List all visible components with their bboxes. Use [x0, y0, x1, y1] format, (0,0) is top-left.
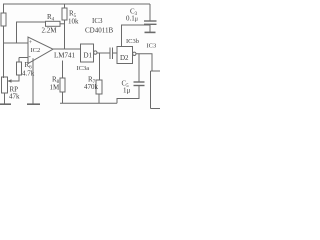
svg-text:IC2: IC2 — [31, 47, 41, 54]
svg-text:CD4011B: CD4011B — [85, 27, 113, 35]
svg-text:2.2M: 2.2M — [42, 26, 58, 34]
svg-text:1M: 1M — [50, 84, 61, 92]
svg-text:+: + — [29, 40, 33, 46]
svg-text:D1: D1 — [84, 52, 93, 60]
svg-text:4.7k: 4.7k — [22, 70, 35, 78]
svg-text:IC3: IC3 — [147, 43, 157, 50]
svg-text:0.1μ: 0.1μ — [126, 15, 138, 23]
svg-text:D2: D2 — [120, 54, 129, 62]
svg-text:IC3a: IC3a — [77, 65, 90, 72]
svg-text:10k: 10k — [68, 18, 79, 26]
svg-text:470k: 470k — [84, 83, 99, 91]
svg-text:47k: 47k — [9, 93, 20, 101]
svg-text:IC3b: IC3b — [126, 38, 139, 45]
svg-text:LM741: LM741 — [54, 52, 76, 60]
svg-text:1μ: 1μ — [123, 87, 131, 95]
svg-text:IC3: IC3 — [92, 17, 103, 25]
